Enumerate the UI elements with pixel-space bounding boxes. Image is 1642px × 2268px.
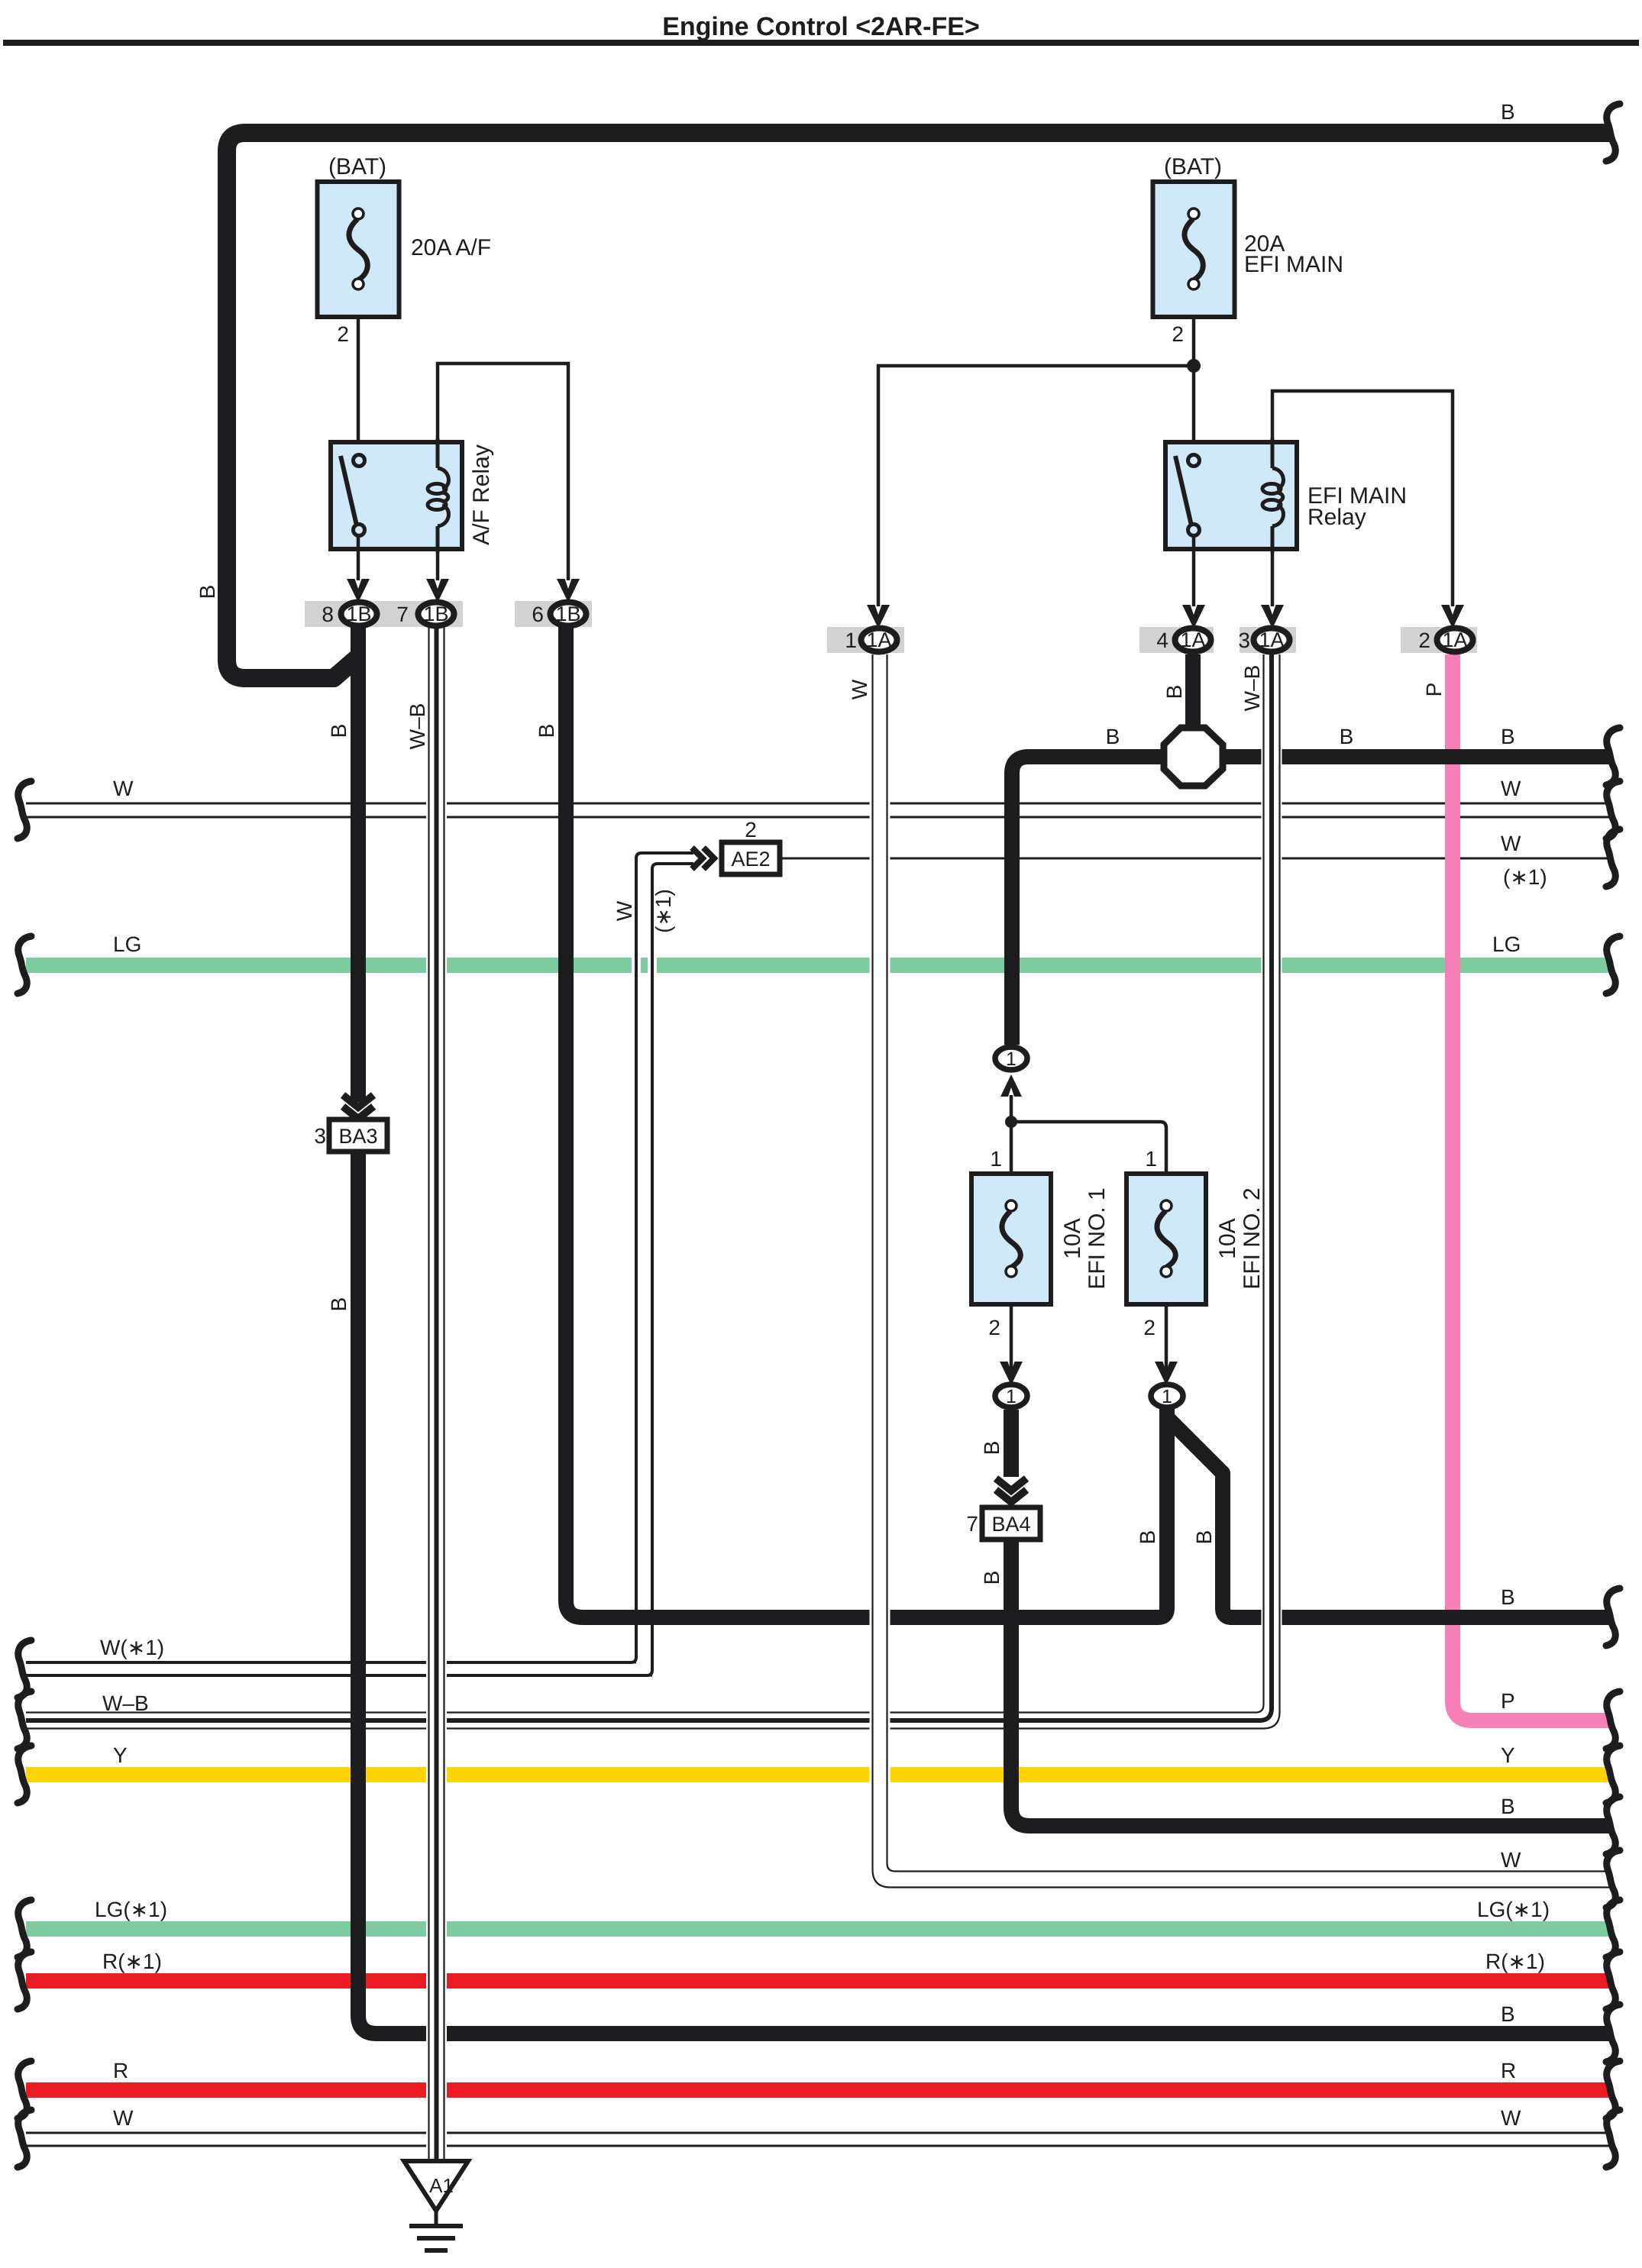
svg-text:W: W	[113, 777, 134, 800]
break symbol B top right	[1606, 104, 1620, 161]
svg-text:W: W	[1501, 1848, 1521, 1872]
svg-text:3: 3	[1238, 628, 1250, 652]
svg-text:B: B	[327, 1297, 351, 1312]
svg-text:1: 1	[1006, 1386, 1017, 1407]
svg-text:LG: LG	[1492, 932, 1521, 956]
svg-text:R: R	[113, 2059, 128, 2082]
svg-text:W–B: W–B	[102, 1691, 149, 1715]
title rule	[3, 40, 1639, 46]
svg-text:1: 1	[845, 628, 857, 652]
wire W connector 1A-1 to right edge	[880, 654, 1610, 1879]
connector band 1A pin 3	[1240, 627, 1296, 653]
relay EFI MAIN	[1165, 442, 1297, 549]
svg-text:1A: 1A	[866, 628, 891, 651]
wire W(*1) bus b (y2194)	[26, 1675, 652, 1677]
wire W-B connector 1B-7 to ground A1	[426, 628, 447, 2169]
fuse 10A EFI NO.2	[1126, 1174, 1206, 1304]
arrow into 1B-6	[557, 579, 580, 603]
connector band 1A pin 4	[1139, 627, 1214, 653]
wire B splice to BA4 and bottom right bus	[1011, 1410, 1610, 1826]
wire EFI NO.2 fuse pin2 down	[1165, 1304, 1168, 1384]
svg-text:LG(∗1): LG(∗1)	[1477, 1898, 1550, 1921]
arrow into 1B-7	[426, 579, 449, 603]
wire EFI NO.1 fuse pin2 down	[1010, 1304, 1013, 1384]
svg-text:Y: Y	[1501, 1743, 1515, 1767]
wire R bus (y2737)	[26, 2082, 1610, 2098]
wire B bus from EFI MAIN relay (y991)	[1012, 757, 1610, 1045]
junction octagon	[1164, 728, 1223, 786]
break symbol P right	[1606, 1691, 1620, 1749]
svg-text:LG: LG	[113, 932, 141, 956]
break symbol LG left	[18, 936, 31, 993]
arrow chevrons into BA4	[996, 1478, 1026, 1491]
svg-text:B: B	[1501, 725, 1515, 748]
svg-text:B: B	[980, 1571, 1004, 1585]
wire fuse EFI MAIN pin2 to relay	[1192, 317, 1196, 458]
wire LG(*1) bus (y2526)	[26, 1921, 1610, 1937]
wire EFI MAIN relay switch to 1A-4	[1192, 535, 1196, 606]
svg-text:EFI NO. 1: EFI NO. 1	[1084, 1187, 1110, 1289]
connector 1A pin 4	[1175, 628, 1211, 652]
wire junction to EFI NO.2 fuse	[1011, 1122, 1166, 1174]
svg-text:2: 2	[1143, 1316, 1156, 1339]
wire A/F relay switch to 1B-8	[357, 535, 360, 580]
connector 1B pin 6	[551, 603, 587, 626]
wire B connector 1A-4 to junction octagon	[1185, 654, 1201, 752]
svg-text:W(∗1): W(∗1)	[100, 1636, 164, 1659]
break symbol Y right	[1606, 1746, 1620, 1803]
connector 1B pin 7	[419, 603, 454, 626]
svg-text:Relay: Relay	[1307, 505, 1366, 530]
ground A1 triangle	[404, 2161, 468, 2211]
wire W bus upper (y1052)	[26, 803, 1610, 805]
break symbol W pair bottom left	[18, 2110, 31, 2167]
break symbol Y left	[18, 1746, 31, 1803]
svg-text:R(∗1): R(∗1)	[1485, 1950, 1545, 1973]
svg-text:EFI MAIN: EFI MAIN	[1244, 252, 1343, 277]
break symbol W 2461 right	[1606, 1850, 1620, 1908]
arrow into 1A-2	[1441, 605, 1464, 628]
svg-text:P: P	[1501, 1689, 1515, 1713]
break symbol W pair bottom right	[1606, 2110, 1620, 2167]
break symbol W-B left	[18, 1691, 31, 1749]
break symbol B 2391 right	[1606, 1797, 1620, 1854]
ground symbol	[435, 2211, 438, 2226]
svg-text:B: B	[980, 1441, 1004, 1455]
svg-text:10A: 10A	[1060, 1218, 1085, 1258]
svg-text:(∗1): (∗1)	[651, 889, 675, 933]
splice circle 1 upper	[995, 1047, 1027, 1070]
svg-text:W: W	[113, 2106, 134, 2130]
break symbol W pair left	[18, 781, 31, 838]
svg-text:W–B: W–B	[406, 703, 429, 750]
svg-text:2: 2	[1172, 322, 1184, 346]
arrow into 1A-1	[867, 605, 890, 628]
svg-text:1A: 1A	[1442, 628, 1467, 651]
svg-text:1: 1	[1145, 1147, 1157, 1171]
junction dot EFI MAIN feed	[1187, 359, 1201, 373]
wire A/F relay coil feed to 1B-6	[438, 363, 568, 580]
wire B main feed (top left)	[227, 133, 1610, 678]
svg-text:8: 8	[322, 603, 334, 626]
fuse 20A EFI MAIN	[1153, 182, 1235, 317]
connector 1A pin 2	[1437, 628, 1473, 652]
svg-text:2: 2	[1418, 628, 1430, 652]
svg-text:A1: A1	[429, 2174, 454, 2197]
wire W bus bottom lower (y2810)	[26, 2145, 1610, 2147]
break symbol W(*1) left	[18, 1640, 31, 1698]
wire B connector 1B-6 down, right, up to EFI NO.2 fuse splice	[566, 626, 1167, 1617]
break symbol R left	[18, 2061, 31, 2118]
connector AE2	[722, 842, 780, 874]
wire B connector 1B-8 down to bottom bus	[358, 626, 1610, 2034]
connector band 1B pins 8-7	[305, 601, 463, 627]
wire splice to junction dot	[1010, 1095, 1013, 1174]
svg-text:(∗1): (∗1)	[1503, 865, 1547, 889]
wire W-B bus (y2253)	[26, 1711, 1222, 1713]
connector 1B pin 8	[341, 603, 377, 626]
connector band 1B pin 6	[515, 601, 592, 627]
connector band 1A pin 1	[827, 627, 904, 653]
svg-text:B: B	[1162, 685, 1186, 699]
svg-text:Engine Control <2AR-FE>: Engine Control <2AR-FE>	[662, 12, 980, 41]
svg-text:1A: 1A	[1259, 628, 1284, 651]
svg-text:B: B	[1501, 1795, 1515, 1818]
wire W to AE2 (x833)	[632, 853, 641, 1662]
fuse 10A EFI NO.1	[971, 1174, 1051, 1304]
svg-text:2: 2	[745, 818, 757, 842]
svg-text:1: 1	[1006, 1048, 1017, 1070]
svg-text:B: B	[1501, 100, 1515, 124]
arrow into splice EFI NO.2	[1155, 1362, 1178, 1385]
svg-text:W: W	[1501, 832, 1521, 855]
wire LG bus (y1264)	[26, 958, 1610, 973]
connector BA3	[329, 1119, 387, 1152]
svg-text:20A A/F: 20A A/F	[411, 235, 491, 260]
svg-text:1A: 1A	[1180, 628, 1205, 651]
svg-text:3: 3	[314, 1124, 326, 1148]
svg-text:B: B	[1340, 725, 1354, 748]
svg-text:B: B	[196, 585, 219, 599]
svg-text:1B: 1B	[346, 603, 371, 625]
wire W(*1) to AE2 (x854)	[648, 864, 657, 1675]
arrow into 1A-4	[1182, 605, 1205, 628]
arrow into splice EFI NO.1	[1000, 1362, 1023, 1385]
svg-text:10A: 10A	[1215, 1218, 1240, 1258]
break symbol B bus991 right	[1606, 728, 1620, 785]
svg-text:1: 1	[990, 1147, 1002, 1171]
connector 1A pin 1	[861, 628, 897, 652]
wire P from connector 1A-2 to right edge	[1453, 654, 1610, 1720]
svg-text:(BAT): (BAT)	[1164, 154, 1222, 179]
connector band 1A pin 2	[1401, 627, 1477, 653]
wire EFI MAIN relay coil feed to 1A-2	[1272, 391, 1453, 606]
wire Y bus (y2324)	[26, 1767, 1610, 1782]
svg-text:P: P	[1422, 683, 1446, 697]
splice circle 1 EFI NO.2	[1151, 1384, 1183, 1407]
wire R(*1) bus (y2594)	[26, 1973, 1610, 1989]
svg-text:W: W	[613, 900, 636, 921]
svg-text:W: W	[1501, 2106, 1521, 2130]
svg-text:R(∗1): R(∗1)	[102, 1950, 162, 1973]
svg-text:AE2: AE2	[731, 848, 770, 871]
svg-text:1B: 1B	[423, 603, 448, 625]
fuse 20A A/F	[318, 182, 399, 317]
svg-text:A/F Relay: A/F Relay	[469, 444, 494, 545]
break symbol B 2663 right	[1606, 2005, 1620, 2062]
svg-text:W–B: W–B	[1240, 665, 1264, 712]
svg-text:W: W	[1501, 777, 1521, 800]
break symbol LG(*1) left	[18, 1900, 31, 1957]
svg-text:R: R	[1501, 2059, 1516, 2082]
svg-text:EFI NO. 2: EFI NO. 2	[1240, 1187, 1265, 1289]
svg-text:B: B	[1501, 1585, 1515, 1609]
svg-text:B: B	[1501, 2002, 1515, 2026]
svg-text:LG(∗1): LG(∗1)	[95, 1898, 167, 1921]
junction dot EFI fuses	[1005, 1116, 1017, 1128]
wire W bus bottom upper (y2793)	[26, 2132, 1610, 2134]
arrow chevrons into AE2	[692, 848, 703, 869]
wire A/F relay coil to 1B-7	[436, 553, 440, 580]
svg-text:W: W	[848, 679, 871, 699]
svg-text:2: 2	[337, 322, 349, 346]
wire W(*1) bus a (y2177)	[26, 1662, 636, 1664]
svg-text:6: 6	[532, 603, 544, 626]
svg-text:7: 7	[396, 603, 409, 626]
break symbol R(*1) right	[1606, 1952, 1620, 2009]
svg-text:1: 1	[1162, 1386, 1172, 1407]
svg-text:(BAT): (BAT)	[328, 154, 386, 179]
svg-text:B: B	[535, 724, 558, 738]
svg-text:B: B	[1106, 725, 1120, 748]
splice circle 1 EFI NO.1	[995, 1384, 1027, 1407]
break symbol B 2118 right	[1606, 1588, 1620, 1646]
wire junction to 1A-1	[878, 366, 1194, 606]
wire B branch EFI NO.2 splice to right edge	[1167, 1410, 1610, 1617]
svg-text:BA3: BA3	[338, 1125, 377, 1148]
break symbol LG right	[1606, 936, 1620, 993]
svg-text:2: 2	[988, 1316, 1000, 1339]
wire fuse A/F pin2 to relay	[357, 317, 360, 458]
arrow into 1B-8	[347, 579, 370, 603]
wire EFI MAIN relay coil to 1A-3	[1271, 553, 1275, 606]
connector BA4	[982, 1507, 1040, 1539]
svg-text:7: 7	[966, 1512, 978, 1536]
arrow chevrons into BA3	[343, 1095, 373, 1107]
relay A/F	[331, 442, 462, 549]
svg-text:B: B	[1136, 1530, 1159, 1545]
wire W (*1) bus right of AE2 (y1124)	[781, 858, 1610, 860]
wire W-B connector 1A-3 to left bus	[1214, 654, 1272, 1720]
wire W bus lower (y1070)	[26, 816, 1610, 819]
svg-text:4: 4	[1156, 628, 1168, 652]
connector 1A pin 3	[1254, 628, 1290, 652]
svg-text:1B: 1B	[555, 603, 580, 625]
arrow into 1A-3	[1261, 605, 1284, 628]
arrow up into splice	[1000, 1074, 1022, 1097]
svg-text:BA4: BA4	[991, 1513, 1030, 1536]
break symbol R right	[1606, 2061, 1620, 2118]
svg-text:Y: Y	[113, 1743, 128, 1767]
break symbol R(*1) left	[18, 1952, 31, 2009]
break symbol LG(*1) right	[1606, 1900, 1620, 1957]
svg-text:B: B	[1192, 1530, 1216, 1545]
break symbol W pair right	[1606, 781, 1620, 838]
break symbol W3 right	[1606, 829, 1620, 887]
svg-text:B: B	[327, 724, 351, 738]
